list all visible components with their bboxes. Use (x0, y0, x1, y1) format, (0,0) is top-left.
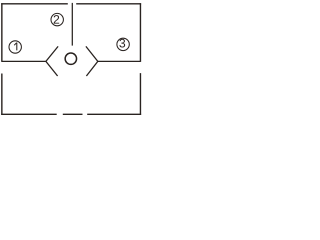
black box border, right edge (with gap below terminal 3 lead) (139, 3, 141, 115)
terminal label digit 3 (119, 39, 125, 48)
wire: terminal 2 lead from top edge down toward device (71, 3, 73, 46)
black box border, bottom edge (with two gaps) (1, 113, 141, 115)
terminal label circle 3 (117, 38, 129, 50)
black box border, left edge (with gap below terminal 1 lead) (1, 3, 3, 115)
terminal label digit 2 (54, 15, 60, 24)
wire: terminal 3 lead from right electrode apex to right edge (98, 60, 141, 62)
device ball (circle) (65, 53, 76, 64)
terminal label circle 1 (9, 41, 21, 53)
right electrode chevron of device (86, 46, 98, 76)
terminal label circle 2 (51, 13, 63, 25)
left electrode chevron of device (46, 46, 58, 76)
terminal label digit 1 (16, 43, 18, 51)
wire: terminal 1 lead from left edge to left electrode apex (2, 60, 46, 62)
black box border, top edge (with gap for terminal 2 lead) (1, 3, 141, 5)
